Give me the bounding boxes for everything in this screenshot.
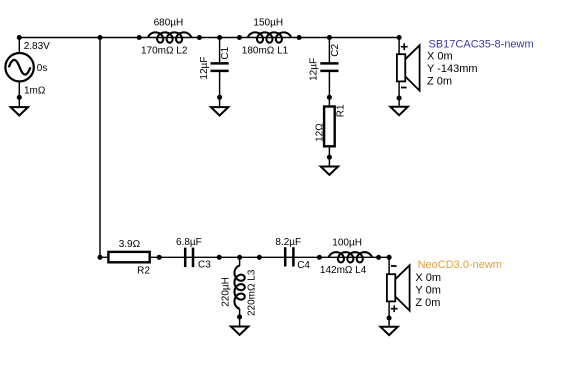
svg-text:NeoCD3.0-newm: NeoCD3.0-newm <box>418 259 502 271</box>
svg-text:2.83V: 2.83V <box>24 41 50 52</box>
junction source bottom <box>17 95 22 100</box>
junction C2 tap <box>327 35 332 40</box>
junction L4 right <box>376 255 381 260</box>
svg-text:Y -143mm: Y -143mm <box>427 63 478 75</box>
wire L3 top <box>239 257 241 266</box>
junction C1 tap <box>217 35 222 40</box>
inductor L3 <box>235 266 245 309</box>
junction L3 tap <box>237 255 242 260</box>
junction C3 right <box>217 255 222 260</box>
junction speaker bottom <box>397 95 402 100</box>
junction bottom-left corner <box>97 255 102 260</box>
junction C1 bottom <box>217 95 222 100</box>
svg-text:12Ω: 12Ω <box>314 123 325 142</box>
speaker NeoCD plus terminal <box>391 305 398 312</box>
junction L3 bottom <box>237 314 242 319</box>
svg-text:170mΩ L2: 170mΩ L2 <box>141 45 188 56</box>
ground speaker top <box>390 107 407 115</box>
svg-text:180mΩ L1: 180mΩ L1 <box>242 45 289 56</box>
junction NeoCD corner <box>387 255 392 260</box>
ground L3 <box>231 327 248 335</box>
wire bottom rail <box>100 256 389 258</box>
junction L1 left <box>237 35 242 40</box>
ground source <box>11 107 28 115</box>
svg-text:X 0m: X 0m <box>427 50 453 62</box>
junction C4 left <box>257 255 262 260</box>
svg-text:1mΩ: 1mΩ <box>24 86 46 97</box>
svg-text:100µH: 100µH <box>332 237 362 248</box>
svg-text:8.2µF: 8.2µF <box>275 237 301 248</box>
resistor R2 <box>108 252 149 262</box>
junction speaker corner <box>397 35 402 40</box>
svg-text:Y 0m: Y 0m <box>415 285 440 297</box>
capacitor C1 <box>211 38 229 108</box>
capacitor C2 <box>320 38 338 107</box>
junction L1 right <box>297 35 302 40</box>
junction C4 right <box>317 255 322 260</box>
junction R1 bottom <box>327 155 332 160</box>
svg-text:220µH: 220µH <box>220 277 231 307</box>
svg-text:C1: C1 <box>220 46 231 59</box>
ground C1 <box>211 107 228 115</box>
svg-text:220mΩ L3: 220mΩ L3 <box>246 269 257 316</box>
wire left branch vertical <box>99 38 101 258</box>
svg-text:C4: C4 <box>297 260 310 271</box>
speaker NeoCD3.0-newm <box>387 257 410 326</box>
svg-text:142mΩ L4: 142mΩ L4 <box>320 265 367 276</box>
svg-text:3.9Ω: 3.9Ω <box>119 239 141 250</box>
svg-text:X 0m: X 0m <box>415 272 441 284</box>
wire top rail <box>19 37 399 39</box>
svg-text:R2: R2 <box>137 265 150 276</box>
svg-text:680µH: 680µH <box>154 18 184 29</box>
inductor L4 <box>329 252 372 262</box>
junction top-left <box>17 35 22 40</box>
ground R1 <box>321 167 338 175</box>
speaker NeoCD minus terminal <box>391 265 397 267</box>
ground NeoCD <box>380 327 397 335</box>
svg-text:SB17CAC35-8-newm: SB17CAC35-8-newm <box>429 39 534 51</box>
speaker SB17CAC35-8-newm <box>397 38 420 107</box>
junction C2-R1 <box>327 95 332 100</box>
svg-text:6.8µF: 6.8µF <box>176 237 202 248</box>
junction NeoCD bottom <box>387 315 392 320</box>
resistor R1 <box>324 107 335 167</box>
junction R2 right <box>157 255 162 260</box>
junction L2 left <box>137 35 142 40</box>
svg-text:Z 0m: Z 0m <box>415 297 440 309</box>
svg-text:150µH: 150µH <box>253 18 283 29</box>
junction branch tap <box>97 35 102 40</box>
svg-text:0s: 0s <box>37 63 48 74</box>
svg-text:12µF: 12µF <box>199 57 210 80</box>
capacitor C4 <box>285 247 293 266</box>
svg-text:C3: C3 <box>198 260 211 271</box>
svg-text:R1: R1 <box>335 104 346 117</box>
wire L3 bottom <box>239 309 241 327</box>
speaker plus terminal <box>401 43 408 50</box>
speaker minus terminal <box>401 87 407 89</box>
junction L2 right <box>197 35 202 40</box>
svg-text:Z 0m: Z 0m <box>427 76 452 88</box>
inductor L2 <box>148 32 191 42</box>
inductor L1 <box>248 32 291 42</box>
voltage source V <box>5 38 33 108</box>
svg-text:C2: C2 <box>330 43 341 56</box>
svg-text:12µF: 12µF <box>309 58 320 81</box>
capacitor C3 <box>185 248 193 268</box>
